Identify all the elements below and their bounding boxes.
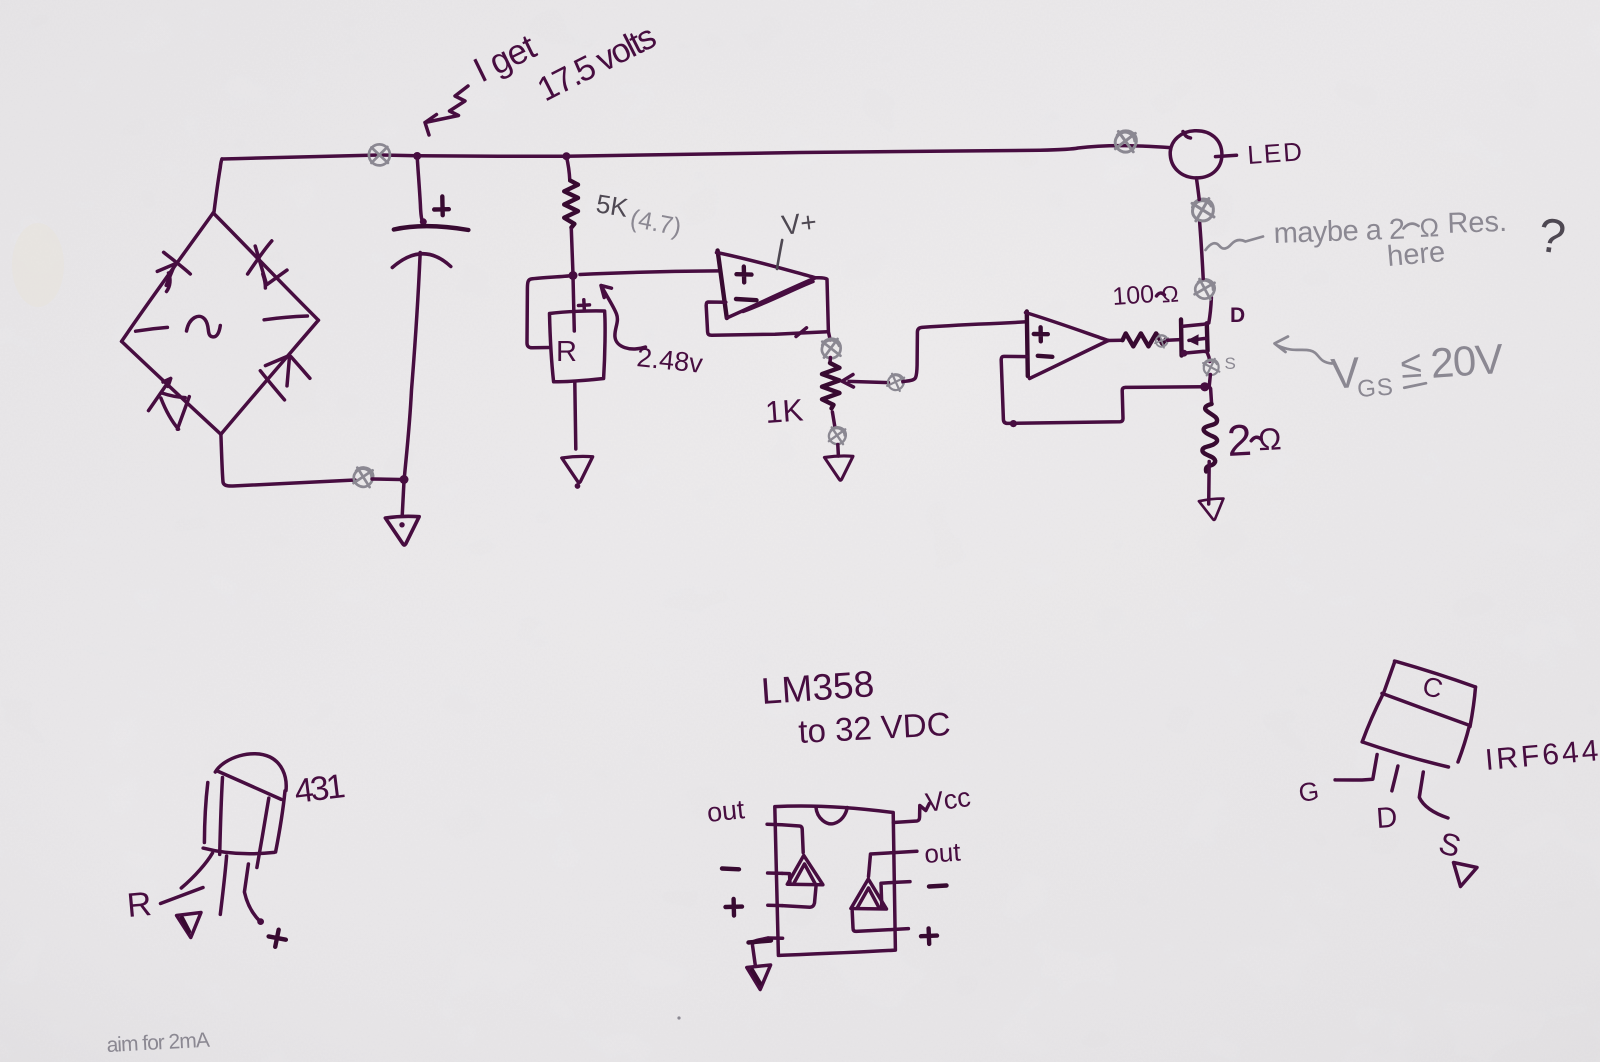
wire bottom to capacitor node: [372, 477, 400, 481]
capacitor C1 plus label: [434, 197, 449, 216]
diode D1 upper-left arm: [157, 252, 190, 291]
svg-text:2: 2: [1226, 416, 1253, 466]
test point marker above drain: [1193, 277, 1217, 301]
label V+: [780, 206, 819, 241]
LM358 pin stub minus left: [768, 871, 782, 875]
label 1K: [764, 392, 805, 430]
label plus (pin3): [726, 899, 743, 916]
svg-text:LM358: LM358: [760, 663, 876, 712]
svg-text:out: out: [705, 794, 746, 828]
svg-text:100: 100: [1111, 280, 1155, 311]
label D (IRF644): [1375, 802, 1398, 835]
MOSFET Q1 body stub with arrow: [1187, 334, 1206, 345]
label plus (pin5): [921, 928, 937, 944]
wire into 1K pot: [828, 358, 832, 364]
AC source squiggle inside bridge: [187, 316, 221, 337]
potentiometer 1K zigzag: [822, 363, 840, 408]
wire source down: [1209, 375, 1211, 405]
LM358 internal wiring pin3 to A: [782, 887, 816, 908]
svg-text:R: R: [556, 336, 577, 368]
label 100 ohm: [1111, 278, 1179, 311]
label 2 ohm: [1226, 414, 1283, 466]
label IRF644: [1484, 734, 1600, 777]
feedback tick mark: [796, 328, 807, 337]
label LED: [1246, 136, 1305, 170]
node junction source/feedback: [1200, 382, 1209, 391]
op-amp U1a triangle: [717, 251, 816, 319]
MOSFET Q1 channel bar: [1205, 323, 1210, 351]
wire 2 ohm to ground: [1207, 462, 1211, 505]
pointer R to left leg: [161, 888, 204, 904]
wire TL431 bottom lead: [575, 382, 576, 449]
svg-text:≤: ≤: [1399, 344, 1423, 387]
ground below 1K pot: [824, 456, 853, 480]
test point marker on top rail right: [1114, 129, 1138, 153]
label + (TO-92): [267, 928, 288, 949]
LM358 pin stub gnd left: [768, 936, 782, 940]
wire node to op-amp U1a non-inverting input: [580, 271, 718, 275]
wire bridge bottom lead: [221, 434, 355, 486]
IRF644 TO-220 package drawing: [1362, 661, 1475, 767]
MOSFET Q1 source stub: [1181, 350, 1210, 362]
LM358 ground wire pin4: [749, 938, 772, 966]
wire bracket around TL431 left: [527, 276, 573, 348]
capacitor C1 top plate: [394, 226, 469, 230]
wire capacitor top lead: [417, 157, 427, 225]
node junction bottom: [400, 475, 409, 484]
label I get (note): [467, 27, 542, 90]
wire to ground below 1K: [836, 445, 840, 457]
LM358 pin stub out2 right: [894, 851, 917, 852]
potentiometer wiper arrow: [842, 375, 889, 388]
svg-text:D: D: [1230, 304, 1245, 327]
label out (pin7): [923, 836, 962, 869]
V+ slash lead: [777, 240, 782, 269]
test point marker at wiper: [886, 372, 906, 392]
TL431 left leg (R): [181, 853, 212, 888]
svg-text:here: here: [1386, 236, 1447, 273]
ground below 2 ohm: [1199, 498, 1225, 521]
op-amp U1b plus input mark: [1034, 327, 1048, 341]
IRF644 gate leg: [1335, 755, 1377, 781]
test point marker below LED: [1190, 197, 1216, 223]
pencil pointer squiggle to maybe-note: [1206, 237, 1264, 251]
label R inside TL431: [556, 336, 577, 368]
label Vcc: [924, 782, 973, 818]
wire 5K bottom lead: [571, 229, 573, 275]
op-amp U1a plus input mark: [737, 267, 752, 283]
test point marker after 100 ohm: [1154, 333, 1170, 349]
label + at TL431: [579, 300, 590, 311]
label 5K: [594, 188, 631, 223]
TL431 TO-92 package drawing: [203, 754, 286, 868]
wire 100 ohm to gate: [1168, 338, 1181, 342]
LM358 internal wiring pin1 to A output: [782, 825, 804, 853]
label G: [1297, 775, 1321, 808]
label question mark: [1534, 209, 1569, 266]
svg-text:Vcc: Vcc: [924, 782, 973, 818]
ground below capacitor: [385, 516, 419, 545]
MOSFET Q1 gate bar: [1179, 320, 1184, 356]
diode D4 lower-left arm: [149, 379, 190, 430]
wire below LED: [1196, 178, 1199, 200]
LM358 DIP body U1: [775, 806, 896, 955]
label 17.5 volts (note): [531, 18, 661, 109]
svg-text:Ω: Ω: [1160, 280, 1179, 307]
label S source pencil: [1225, 354, 1236, 373]
label LM358: [760, 663, 876, 712]
TL431 middle leg: [220, 856, 226, 914]
ground below TL431: [562, 456, 593, 488]
test point marker on bottom wire: [352, 466, 375, 489]
ground arrow below LM358: [747, 965, 771, 990]
svg-text:20V: 20V: [1429, 335, 1505, 387]
svg-text:S: S: [1225, 354, 1236, 373]
label maybe a 2 ohm Res. (pencil): [1273, 206, 1508, 250]
label 431: [292, 767, 346, 811]
label aim for 2mA (pencil): [106, 1029, 210, 1057]
op-amp U1b minus input mark: [1038, 356, 1053, 357]
wire wiper to op-amp U1b input: [903, 322, 1027, 382]
wire LED to drain segment: [1200, 222, 1204, 279]
wire capacitor bottom lead: [404, 253, 420, 480]
IRF644 source leg: [1419, 772, 1448, 818]
TL431 box U2: [550, 311, 606, 382]
resistor 2 ohm coil: [1202, 404, 1217, 472]
node junction top rail to capacitor: [413, 152, 421, 160]
label (4.7) pencil: [628, 204, 684, 241]
label out (pin1): [705, 794, 746, 828]
LM358 internal op-amp B triangle: [851, 879, 887, 909]
LED DS1 circle: [1170, 131, 1222, 178]
node junction 5K / TL431: [569, 271, 578, 280]
TO-220 mounting hole C: [1420, 671, 1446, 705]
test point marker on top rail left: [369, 144, 390, 165]
LM358 pin stub plus2 right: [895, 927, 909, 931]
wire U1a feedback loop: [706, 302, 827, 335]
label here (pencil): [1386, 236, 1447, 273]
LM358 pin stub minus2 right: [894, 880, 910, 884]
label D drain: [1230, 304, 1245, 327]
svg-text:GS: GS: [1356, 374, 1394, 403]
label 2.48v: [635, 342, 704, 379]
svg-text:G: G: [1297, 775, 1321, 808]
svg-text:R: R: [125, 885, 153, 925]
svg-text:LED: LED: [1246, 136, 1305, 170]
test point marker below U1a output: [820, 338, 842, 360]
AC lead dash right: [264, 316, 307, 320]
LM358 internal wiring pin6 to B: [881, 882, 894, 906]
pencil arrow to Vgs note: [1275, 337, 1333, 364]
test point marker at source: [1202, 358, 1221, 377]
wire ground stem below bottom node: [402, 481, 404, 516]
MOSFET Q1 drain stub: [1183, 323, 1209, 326]
capacitor C1 bottom plate: [392, 254, 451, 268]
label minus (pin2): [722, 866, 739, 871]
wire U1b feedback to source node: [1001, 356, 1203, 427]
wire top rail: [222, 146, 1170, 159]
test point marker below 1K: [828, 426, 847, 446]
label to 32 VDC: [797, 705, 951, 750]
LED label lead dash: [1216, 155, 1237, 156]
label Vgs <= 20V (pencil): [1329, 335, 1505, 405]
svg-text:431: 431: [292, 767, 346, 811]
node junction top rail to 5K resistor: [562, 152, 570, 160]
svg-text:Ω: Ω: [1257, 421, 1282, 457]
LM358 internal wiring pin7 to B output: [869, 853, 895, 877]
label R (TO-92): [125, 885, 153, 925]
TL431 right leg (+): [244, 864, 264, 925]
LM358 internal wiring pin2 to A: [782, 873, 790, 883]
LM358 internal wiring pin5 to B: [852, 911, 895, 931]
arrow below S: [1454, 863, 1478, 887]
diode D3 lower-right arm: [260, 355, 310, 400]
label S (IRF644): [1435, 825, 1465, 864]
wire U1a output: [816, 278, 831, 340]
bridge rectifier outline: [122, 213, 319, 434]
svg-text:1K: 1K: [764, 392, 805, 430]
ground arrow below TO-92: [177, 913, 201, 938]
diode D2 upper-right arm: [248, 241, 287, 288]
svg-text:5K: 5K: [594, 188, 631, 223]
svg-text:out: out: [923, 836, 962, 869]
wire U1b output: [1108, 338, 1122, 342]
wire into TL431 box: [573, 276, 574, 331]
svg-text:D: D: [1375, 802, 1398, 835]
LM358 internal op-amp A triangle: [787, 855, 823, 884]
wire drain up: [1209, 298, 1212, 323]
resistor 100 ohm zigzag: [1123, 333, 1166, 346]
label minus (pin6): [929, 886, 947, 887]
wire 5K top lead: [566, 157, 569, 181]
wire bridge top lead: [214, 159, 222, 212]
IRF644 drain leg: [1392, 766, 1398, 791]
svg-text:Res.: Res.: [1447, 206, 1508, 240]
arrow from note to top rail: [425, 86, 468, 135]
op-amp U1b triangle: [1026, 312, 1109, 379]
wire 1K bottom: [832, 412, 834, 427]
LM358 pin stub out1 left: [767, 822, 782, 826]
arrow from 2.48v to node: [601, 286, 646, 349]
LM358 pin stub plus left: [768, 903, 782, 907]
op-amp U1a minus input mark: [736, 299, 757, 300]
resistor R1 5K zigzag: [564, 181, 578, 228]
LM358 pin stub Vcc right: [893, 804, 929, 823]
svg-text:V+: V+: [780, 206, 819, 241]
AC lead dash left: [136, 327, 168, 331]
